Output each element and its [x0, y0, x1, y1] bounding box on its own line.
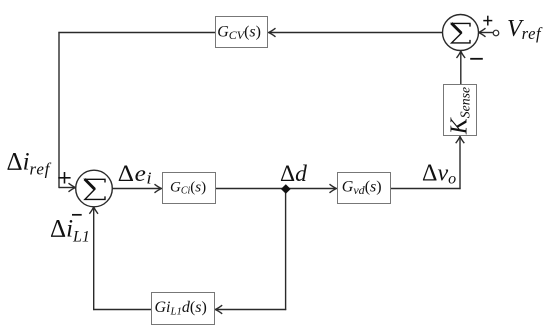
wire: bottom horizontal into Gi_L1d(s) with arrowhead	[215, 305, 286, 314]
wire: V_ref input into summing junction U2 with arrowhead	[479, 28, 494, 37]
label + at summing junction U1	[58, 172, 70, 184]
block K_Sense (rotated label)	[444, 85, 477, 136]
label &#8722; at summing junction U2	[470, 58, 483, 60]
wire: node Δd to G_vd(s) input with arrowhead	[286, 184, 337, 193]
wire: vertical from node Δd down to bottom feedback line	[285, 189, 287, 311]
summing junction U2 (top right)	[443, 15, 479, 51]
svg-text:Δd: Δd	[280, 161, 307, 187]
wire: G_vd(s) output horizontal to right vertical	[390, 188, 461, 190]
wire: K_Sense output up into summing junction U2 with arrowhead	[457, 51, 466, 85]
node Δd junction dot	[281, 184, 291, 193]
wire: top horizontal from G_CV(s) output to left edge	[58, 32, 215, 34]
terminal: V_ref input open circle	[493, 30, 499, 36]
wire: top feedback horizontal from summing junction U2 into G_CV(s)	[269, 28, 443, 37]
wire: left vertical down from top line to summing junction U1 level	[58, 32, 60, 188]
wire: Gi_L1d(s) output left to bottom-left corner	[93, 309, 152, 311]
wire: G_Ci(s) output to node Δd	[216, 188, 286, 190]
block Gi_L1d(s)	[152, 293, 215, 325]
wire: short horizontal into summing junction U1 with arrowhead	[59, 183, 76, 192]
summing junction U1 (left)	[76, 170, 113, 207]
wire: bottom-left vertical up into summing junction U1 with arrowhead	[89, 207, 98, 310]
block G_Ci(s)	[163, 173, 216, 204]
label + at summing junction U2	[483, 16, 492, 26]
wire: U1 output to G_Ci(s) input with arrowhead	[113, 184, 162, 193]
label Δi_L1 with superscript minus	[50, 215, 90, 246]
block G_vd(s)	[338, 173, 391, 204]
block G_CV(s)	[216, 17, 268, 48]
wire: right vertical up into K_Sense with arrowhead	[456, 136, 465, 189]
